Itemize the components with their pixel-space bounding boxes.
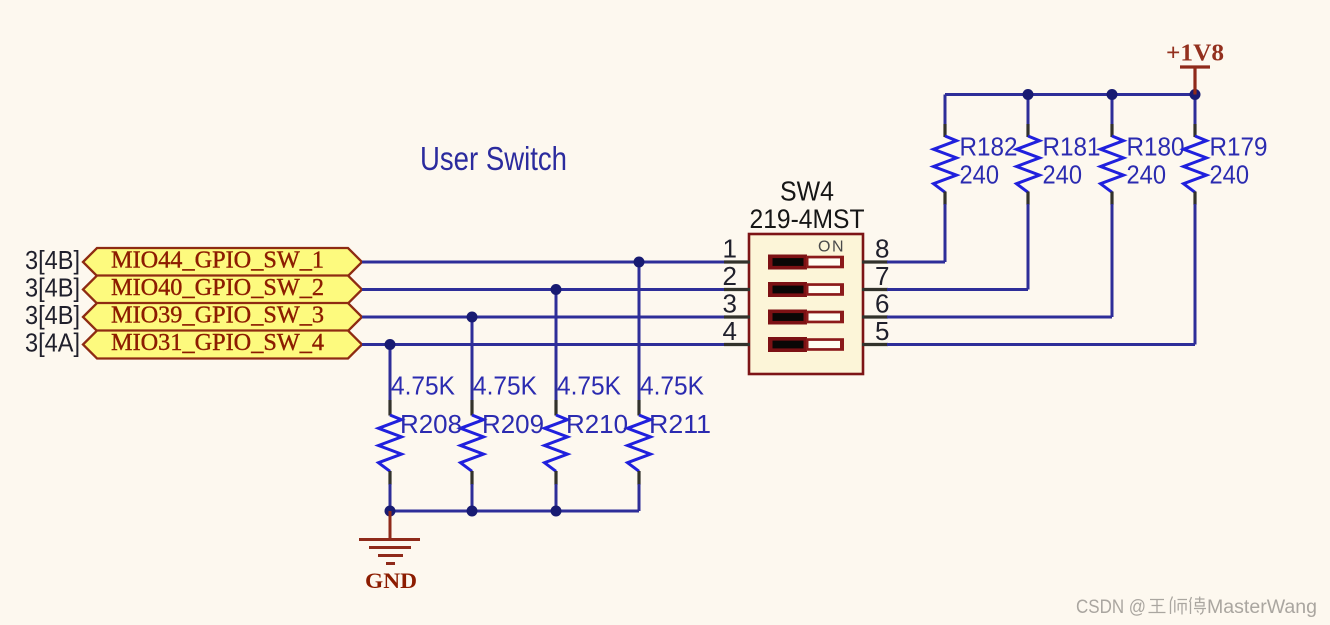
SW4 switch bar 4 — [768, 337, 844, 352]
svg-text:219-4MST: 219-4MST — [750, 204, 865, 234]
junction dot row4 R208 — [385, 339, 396, 350]
resistor R210 — [545, 290, 629, 512]
svg-text:MIO39_GPIO_SW_3: MIO39_GPIO_SW_3 — [111, 303, 324, 329]
svg-text:240: 240 — [960, 160, 1000, 190]
junction dot rail R180 — [1107, 89, 1118, 100]
svg-text:CSDN @: CSDN @ — [1076, 597, 1146, 618]
svg-text:R211: R211 — [649, 409, 711, 439]
wire row2 flag to SW4 pin2 — [362, 288, 725, 291]
svg-text:8: 8 — [875, 234, 889, 264]
ground symbol GND — [359, 511, 420, 593]
svg-text:ON: ON — [818, 239, 845, 256]
resistor R180 — [1101, 95, 1185, 318]
svg-text:2: 2 — [723, 261, 737, 291]
junction dot rail R181 — [1023, 89, 1034, 100]
svg-text:R210: R210 — [566, 409, 628, 439]
net flag MIO40_GPIO_SW_2 — [83, 275, 362, 304]
wire SW4 pin7 to R181 — [887, 288, 1028, 291]
junction dot rail +1V8 — [1190, 89, 1201, 100]
wire row1 flag to SW4 pin1 — [362, 261, 725, 264]
svg-text:R181: R181 — [1043, 132, 1101, 162]
DIP switch SW4 — [749, 234, 863, 374]
svg-text:4.75K: 4.75K — [640, 371, 705, 401]
wire GND bottom rail — [390, 510, 639, 513]
svg-text:240: 240 — [1043, 160, 1083, 190]
svg-text:240: 240 — [1127, 160, 1167, 190]
wire +1V8 top rail — [945, 93, 1195, 96]
junction dot rail R209 — [467, 506, 478, 517]
junction dot row3 R209 — [467, 312, 478, 323]
resistor R208 — [379, 345, 463, 512]
svg-text:4.75K: 4.75K — [391, 371, 456, 401]
svg-text:3[4B]: 3[4B] — [25, 300, 80, 330]
svg-text:4: 4 — [723, 316, 737, 346]
SW4 pin 7 — [862, 288, 888, 291]
svg-text:7: 7 — [875, 261, 889, 291]
svg-text:4.75K: 4.75K — [473, 371, 538, 401]
SW4 pin 4 — [724, 343, 750, 346]
resistor R211 — [628, 262, 712, 511]
svg-text:R208: R208 — [400, 409, 462, 439]
resistor R181 — [1017, 95, 1101, 290]
junction dot rail GND — [385, 506, 396, 517]
wire SW4 pin6 to R180 — [887, 316, 1112, 319]
SW4 pin 1 — [724, 260, 750, 263]
svg-text:3[4B]: 3[4B] — [25, 245, 80, 275]
svg-text:R182: R182 — [960, 132, 1018, 162]
svg-text:R209: R209 — [482, 409, 544, 439]
svg-text:MasterWang: MasterWang — [1207, 597, 1317, 618]
svg-text:MIO44_GPIO_SW_1: MIO44_GPIO_SW_1 — [111, 248, 324, 274]
SW4 switch bar 3 — [768, 310, 844, 325]
wire row3 flag to SW4 pin3 — [362, 316, 725, 319]
svg-text:R180: R180 — [1127, 132, 1185, 162]
svg-text:6: 6 — [875, 289, 889, 319]
net flag MIO44_GPIO_SW_1 — [83, 248, 362, 277]
watermark CSDN @MasterWang — [1076, 597, 1317, 619]
SW4 pin 8 — [862, 260, 888, 263]
SW4 pin 2 — [724, 288, 750, 291]
resistor R209 — [461, 317, 545, 511]
svg-text:240: 240 — [1210, 160, 1250, 190]
svg-text:GND: GND — [365, 568, 417, 593]
wire SW4 pin5 to R179 — [887, 343, 1195, 346]
SW4 pin 6 — [862, 315, 888, 318]
svg-text:User Switch: User Switch — [420, 140, 567, 177]
net flag MIO39_GPIO_SW_3 — [83, 303, 362, 332]
svg-text:MIO40_GPIO_SW_2: MIO40_GPIO_SW_2 — [111, 275, 324, 301]
svg-text:MIO31_GPIO_SW_4: MIO31_GPIO_SW_4 — [111, 330, 324, 356]
wire row4 flag to SW4 pin4 — [362, 343, 725, 346]
resistor R179 — [1184, 95, 1268, 345]
svg-text:1: 1 — [723, 234, 737, 264]
junction dot row1 R211 — [634, 257, 645, 268]
svg-text:3[4A]: 3[4A] — [25, 328, 80, 358]
wire SW4 pin8 to R182 — [887, 261, 945, 264]
power port +1V8 — [1166, 41, 1224, 95]
junction dot rail R210 — [551, 506, 562, 517]
SW4 pin 5 — [862, 343, 888, 346]
svg-text:5: 5 — [875, 316, 889, 346]
SW4 switch bar 1 — [768, 255, 844, 270]
svg-text:R179: R179 — [1210, 132, 1268, 162]
SW4 switch bar 2 — [768, 282, 844, 297]
resistor R182 — [934, 95, 1018, 263]
svg-text:3[4B]: 3[4B] — [25, 273, 80, 303]
svg-text:4.75K: 4.75K — [557, 371, 622, 401]
SW4 pin 3 — [724, 315, 750, 318]
svg-text:SW4: SW4 — [780, 176, 834, 207]
svg-text:+1V8: +1V8 — [1166, 41, 1224, 67]
junction dot row2 R210 — [551, 284, 562, 295]
svg-text:3: 3 — [723, 289, 737, 319]
net flag MIO31_GPIO_SW_4 — [83, 330, 362, 359]
